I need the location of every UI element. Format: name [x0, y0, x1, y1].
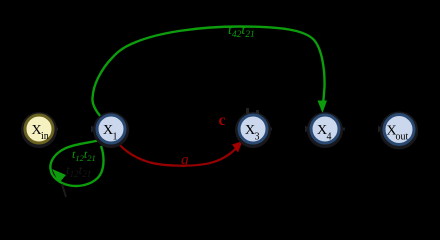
svg-text:out: out: [396, 132, 409, 143]
svg-text:4: 4: [327, 132, 332, 143]
svg-text:1: 1: [113, 132, 118, 143]
wire black edge X3 to X4 (invisible stub remnants): [267, 128, 272, 131]
node X4: [311, 115, 339, 143]
svg-text:in: in: [41, 131, 49, 142]
arrowhead red into X3: [232, 141, 243, 153]
node X1: [97, 115, 125, 143]
wire green edge X1 to X4 (big arc): [92, 27, 324, 118]
node X3: [239, 115, 267, 143]
arrowhead green on self-loop: [52, 169, 66, 183]
faint wisp below loop arrow: [62, 184, 66, 197]
svg-text:3: 3: [255, 132, 260, 143]
wire black edge X4 to Xout (invisible stub remnants): [340, 128, 345, 131]
node halos (soft shadows): [23, 114, 55, 146]
node Xout: [384, 115, 414, 145]
arrowhead green into X4: [318, 101, 328, 114]
wire red edge X1 to X3: [116, 141, 240, 166]
svg-text:c: c: [219, 112, 226, 129]
wire black edge Xin to X1 (invisible stub remnants): [53, 128, 58, 131]
svg-text:g: g: [181, 152, 189, 168]
faint shadow label above X3: [246, 108, 249, 114]
node Xin: [25, 115, 53, 143]
wire green self-loop at X1: [50, 141, 103, 186]
